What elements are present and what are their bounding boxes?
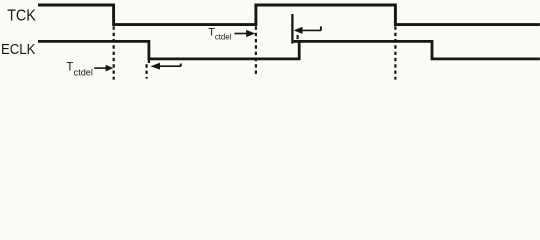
svg-text:ctdel: ctdel xyxy=(74,68,93,78)
dashed reference line at TCK rising edge x=255.9 xyxy=(255,26,257,76)
arrow left at ECLK falling edge (lower) with tail tick xyxy=(151,63,161,70)
wire ECLK waveform (high 38-148.9, fall, low to 299.2, rise, high to 432, fall, low to edge) xyxy=(38,41,540,59)
wire ECLK falling-edge stub below low line xyxy=(148,59,150,63)
svg-text:ctdel: ctdel xyxy=(215,32,232,41)
dashed reference line at TCK first falling edge x=113.7 xyxy=(113,26,115,79)
wire TCK waveform (high 38-113.6, fall, low to 256, rise, high to 395.4, fall, low to edge) xyxy=(38,5,540,25)
arrow left at ECLK rising edge (upper) with tail tick xyxy=(294,27,303,34)
measurement limit bar at x=292.9 xyxy=(291,14,293,44)
svg-text:T: T xyxy=(66,61,73,73)
dashed stub above ECLK rising edge x=297.6 xyxy=(297,35,299,39)
dashed reference line at TCK second falling edge x=395.4 xyxy=(394,26,396,79)
svg-text:TCK: TCK xyxy=(7,8,36,25)
wire ECLK high segment leading stub xyxy=(294,40,300,43)
arrow right toward TCK rising edge (upper Tctdel) xyxy=(234,33,248,35)
arrow right toward dashed line below TCK first falling edge (lower Tctdel) xyxy=(94,67,107,69)
svg-text:ECLK: ECLK xyxy=(1,41,35,58)
dashed reference line below ECLK falling edge x=146.6 xyxy=(146,64,148,78)
